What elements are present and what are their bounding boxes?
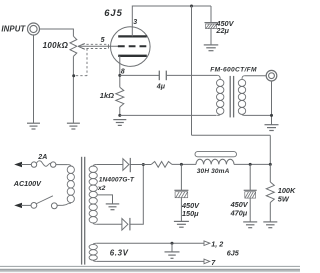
label 450V (150μ) (181, 201, 200, 210)
svg-text:6J5: 6J5 (104, 7, 123, 18)
ground 22μ cap (204, 45, 219, 51)
wire choke to B+ node (234, 163, 270, 165)
label 450V (470μ) (230, 200, 249, 209)
potentiometer VR1 100kΩ (70, 36, 77, 56)
6J5 cathode bar (118, 55, 147, 57)
svg-text:150μ: 150μ (182, 209, 199, 218)
label AC100V (13, 179, 42, 188)
wire output jack to secondary bottom (271, 81, 273, 125)
wire switch to PT primary bottom (57, 204, 67, 206)
wire pot bottom to ground (72, 56, 74, 123)
svg-text:6J5: 6J5 (227, 248, 240, 257)
wire fuse to PT primary top (56, 164, 68, 166)
ground output jack (265, 125, 279, 131)
svg-text:5: 5 (101, 37, 105, 44)
PT 6.3V winding (89, 243, 97, 261)
label 2A (37, 154, 47, 161)
label 22μ (215, 26, 229, 35)
label pins 1, 2 (211, 239, 223, 248)
svg-text:100kΩ: 100kΩ (43, 41, 69, 50)
PT HV center tap wire (97, 195, 112, 204)
ground volume pot (67, 123, 80, 129)
svg-text:4μ: 4μ (156, 83, 166, 90)
node 470μ tap (249, 163, 252, 166)
label 6.3V (110, 249, 129, 258)
wire HV bottom to diode D2 (97, 223, 122, 225)
wire 6.3V bottom to heater pin 7 (97, 260, 204, 262)
label 30H 30mA (197, 168, 230, 175)
label 150μ (182, 209, 199, 218)
node ground-line junction (118, 114, 121, 117)
wire cathode pin 8 down (119, 56, 121, 87)
AC plug arrow bottom (14, 203, 31, 208)
label pin 5 (101, 37, 105, 44)
resistor Rk 1kΩ (116, 87, 124, 107)
resistor R-filter (151, 162, 172, 168)
wire 150μ to ground (180, 198, 182, 222)
wire 150μ drop (180, 164, 182, 190)
ground input jack (27, 123, 40, 129)
PT core (82, 157, 85, 265)
label INPUT (1, 25, 26, 34)
switch SW1 (31, 196, 57, 209)
OPT primary winding (217, 75, 224, 115)
label 5W (278, 195, 290, 204)
6J5 grid dashed bar (118, 45, 147, 47)
capacitor C2 22μ 450V drop wire (210, 6, 212, 23)
label 1kΩ (100, 91, 114, 100)
node rectifier output junction (130, 163, 151, 166)
output jack J-OUT (266, 70, 277, 81)
svg-text:1N4007G-T: 1N4007G-T (99, 176, 135, 183)
label 4μ (156, 83, 166, 90)
ground HV center tap (106, 204, 120, 210)
capacitor C4 470μ 450V (244, 190, 257, 198)
wire 470μ to ground (249, 198, 251, 222)
node secondary ground junction (270, 114, 273, 117)
label pin 3 (133, 19, 137, 26)
wire cathode to coupling cap (120, 74, 160, 76)
node heater ground junction (171, 242, 174, 245)
label x2 (97, 185, 106, 192)
wire input jack to volume pot top (40, 29, 74, 36)
capacitor C1 4μ (159, 71, 166, 81)
heater arrow 7 (204, 259, 210, 264)
wire OPT secondary bottom (245, 114, 272, 116)
label 100K (278, 186, 296, 195)
label FM-600CT/FM (210, 67, 257, 74)
label 450V (22μ) (215, 19, 234, 28)
wire HV top to diode D1 (97, 164, 123, 166)
ground 150μ cap (174, 221, 189, 227)
OPT secondary winding (238, 76, 245, 116)
wire B+ node to bleeder (269, 164, 271, 182)
ground cathode resistor (113, 120, 126, 126)
wire coupling cap to OPT primary top (166, 74, 218, 76)
wire filter resistor to choke (172, 163, 196, 165)
node shield ground junction (72, 74, 75, 77)
wire 22μ to ground (210, 29, 212, 45)
diode D1 1N4007 (123, 158, 130, 172)
resistor R-bleeder 100K 5W (266, 182, 274, 203)
wire 470μ drop (249, 164, 251, 190)
node B+ output junction (269, 163, 272, 166)
node 150μ tap (180, 163, 183, 166)
svg-text:INPUT: INPUT (1, 25, 26, 34)
6J5 plate bar (118, 35, 147, 37)
svg-text:5W: 5W (278, 195, 290, 204)
wire B+ horizontal return (192, 134, 271, 136)
shielded cable dashes around grid wire (74, 44, 108, 75)
svg-text:470μ: 470μ (230, 209, 248, 218)
diode D2 1N4007 (122, 218, 130, 231)
wire B+ right riser (269, 135, 271, 164)
label 6J5 heater (227, 248, 240, 257)
choke L1 30H winding (196, 159, 234, 164)
wire input jack to ground (33, 35, 35, 123)
ground 470μ cap (243, 222, 257, 228)
svg-text:x2: x2 (97, 185, 106, 192)
wire plate pin 3 to B+ rail (132, 6, 211, 36)
AC plug arrow top (14, 162, 31, 167)
wire D2 cathode up to D1 cathode (130, 165, 143, 225)
svg-text:8: 8 (121, 68, 125, 75)
pot wiper arrow (78, 43, 85, 49)
label 6J5 (104, 7, 123, 18)
svg-text:3: 3 (133, 19, 137, 26)
wire B+ rail drop (191, 6, 193, 135)
wire bleeder to ground (269, 203, 271, 222)
label pin 8 (121, 68, 125, 75)
ground bleeder resistor (263, 222, 277, 228)
svg-text:FM-600CT/FM: FM-600CT/FM (210, 67, 257, 74)
choke L1 30H core (195, 152, 237, 157)
wire 6.3V top to heater pins (97, 242, 204, 244)
PT HV secondary winding (89, 165, 97, 225)
PT primary winding (67, 165, 74, 204)
wire OPT secondary top to output jack (245, 75, 267, 77)
input jack J-IN (28, 23, 40, 35)
wire ground line to OPT primary bottom (120, 114, 217, 116)
OPT core (230, 76, 233, 118)
svg-text:1, 2: 1, 2 (211, 239, 223, 248)
label 470μ (230, 209, 248, 218)
svg-text:2A: 2A (37, 154, 47, 161)
wire heater ground stem (171, 243, 173, 252)
fuse F1 2A (31, 161, 56, 167)
wire grid (pin 5) from wiper to tube (78, 45, 118, 47)
node cathode junction (118, 74, 121, 77)
svg-text:6.3V: 6.3V (110, 249, 129, 258)
heater arrow 1,2 (204, 241, 210, 246)
ground heater winding (165, 252, 180, 258)
node B+ rail junction (190, 5, 193, 8)
wire 1k bottom to ground line (119, 107, 121, 115)
capacitor C3 150μ 450V (174, 190, 188, 197)
label 1N4007G-T (99, 176, 135, 183)
svg-text:22μ: 22μ (215, 26, 229, 35)
capacitor C2 22μ 450V (205, 23, 218, 29)
label pin 7 (211, 258, 216, 267)
svg-text:AC100V: AC100V (13, 179, 42, 188)
label 100kΩ (43, 41, 69, 50)
svg-text:1kΩ: 1kΩ (100, 91, 114, 100)
triode U1 6J5 envelope (111, 27, 151, 67)
svg-text:30H 30mA: 30H 30mA (197, 168, 230, 175)
